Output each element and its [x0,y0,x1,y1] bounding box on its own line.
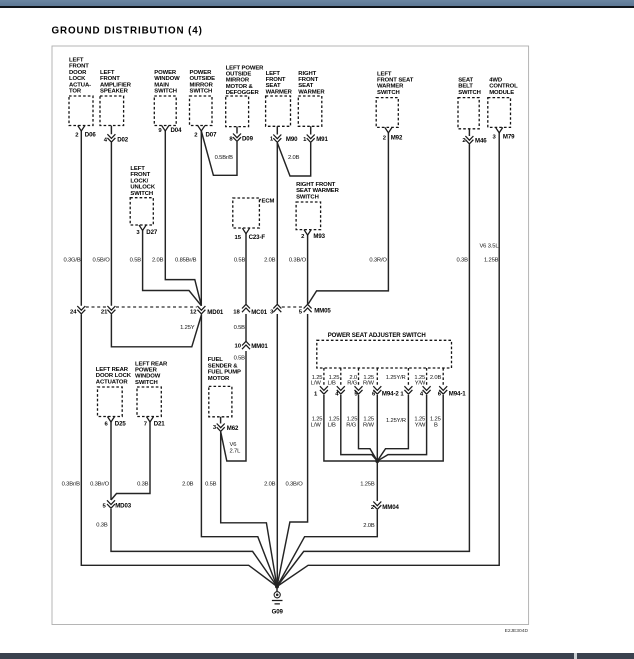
svg-text:D27: D27 [146,229,158,236]
svg-text:LEFT REARPOWERWINDOWSWITCH: LEFT REARPOWERWINDOWSWITCH [135,361,168,386]
svg-text:B: B [434,422,438,428]
svg-text:L/W: L/W [311,422,322,428]
svg-text:0.3B/O: 0.3B/O [285,482,303,488]
component D02 left front amplifier speaker [100,70,132,144]
svg-text:SEATBELTSWITCH: SEATBELTSWITCH [458,78,481,96]
svg-text:7: 7 [144,422,148,428]
svg-text:0.3R/O: 0.3R/O [369,258,387,264]
svg-text:1: 1 [314,391,318,397]
svg-text:21: 21 [101,309,108,315]
wire MC01 to MM01 pin10 (0.5B) [245,314,247,341]
wire MM04 pin2 to ground fan (2.0B) [277,510,377,587]
wire M94-1 pin1 to splice (1.25Y/R) [377,395,408,461]
svg-text:0.3B: 0.3B [456,258,468,264]
wire M92 pin2 to MM05 pin5 (0.3R/O) [308,133,388,304]
svg-text:0.3B/O: 0.3B/O [289,258,307,264]
svg-text:0.5Br/B: 0.5Br/B [215,155,234,161]
internal dashed leads of power seat adjuster switch [324,368,443,386]
svg-text:1.25Y/R: 1.25Y/R [386,418,406,424]
svg-text:4WDCONTROLMODULE: 4WDCONTROLMODULE [489,78,518,96]
svg-text:M93: M93 [313,233,325,240]
connector MC01 pin 18 [233,304,268,316]
wire D27 pin3 to MD01 (0.5B) [143,231,202,306]
component ECM connector C23-F [233,198,275,241]
svg-text:LEFTFRONTSEATWARMER: LEFTFRONTSEATWARMER [266,71,293,96]
svg-text:0.5B: 0.5B [205,482,217,488]
svg-text:Y/W: Y/W [415,422,426,428]
component D09 left power outside mirror motor and defogger [226,65,264,142]
connector MM05 pin 3 [270,304,281,315]
svg-text:R/G: R/G [346,422,356,428]
svg-text:0.3B: 0.3B [96,523,108,529]
svg-text:R/W: R/W [363,381,374,387]
svg-text:2.0B: 2.0B [264,482,276,488]
svg-text:1.25B: 1.25B [360,481,375,487]
svg-text:MM05: MM05 [314,308,331,315]
svg-text:2.0B: 2.0B [363,523,375,529]
svg-text:MD01: MD01 [207,309,224,316]
wire M93 pin2 to MM05 pin5 (0.3B/O) [307,235,309,304]
svg-text:18: 18 [233,310,240,316]
component D07 power outside mirror switch [190,70,218,139]
svg-text:D09: D09 [242,136,254,143]
wire M46 pin2 to ground fan (0.3B) [277,129,469,587]
svg-text:GROUND DISTRIBUTION (4): GROUND DISTRIBUTION (4) [52,26,203,37]
svg-text:RIGHT FRONTSEAT WARMERSWITCH: RIGHT FRONTSEAT WARMERSWITCH [296,182,339,200]
wire M94-2 pin6 to splice (1.25 R/W) [376,395,378,461]
wire MD01 pin21 jumper to MD01 pin12 (1.25Y) [111,314,201,346]
diagram frame [52,46,529,625]
svg-text:10: 10 [234,344,241,350]
wire M62 pin3 stub [220,417,222,424]
svg-text:MM01: MM01 [251,343,268,350]
component M90 left front seat warmer [266,71,299,143]
svg-text:L/B: L/B [328,381,337,387]
svg-text:LEFT REARDOOR LOCKACTUATOR: LEFT REARDOOR LOCKACTUATOR [96,367,132,385]
component M62 fuel sender and fuel pump motor [208,357,241,432]
svg-text:D06: D06 [85,132,97,139]
wire M94-2 pin4 to splice (1.25 L/B) [341,395,378,461]
wire D04 pin9 to MD01 (2.0B) [165,131,201,306]
wire M62 pin3 to ground fan (0.5B) [221,432,277,587]
svg-text:5: 5 [354,391,358,397]
connector M94-1 pins 1,4,6 [400,386,466,397]
bottom dark bar [0,653,634,659]
wire MM01 pin10 to M62 splice (0.5B) [221,351,246,461]
svg-text:2: 2 [301,234,305,240]
svg-text:1.25B: 1.25B [484,258,499,264]
connector MD01 pin 21 [101,306,116,315]
svg-text:POWERWINDOWMAINSWITCH: POWERWINDOWMAINSWITCH [154,70,180,95]
svg-text:M62: M62 [227,425,239,432]
connector MD01 dashed gang line [86,306,197,308]
connector M94-2 pins 1,4,5,6 [314,386,399,397]
svg-text:2.0B: 2.0B [182,482,194,488]
svg-text:M92: M92 [391,134,403,141]
svg-text:LEFTFRONTLOCK/UNLOCKSWITCH: LEFTFRONTLOCK/UNLOCKSWITCH [130,166,155,197]
svg-text:2.0B: 2.0B [430,375,442,381]
svg-text:3: 3 [136,230,140,236]
wire M90 pin1 to M91 pin1 (2.0B) [277,126,310,176]
svg-text:M46: M46 [475,137,487,144]
connector MM01 pin 10 [234,341,268,350]
svg-text:M94-2: M94-2 [382,390,399,397]
connector MD03 pin 5 [103,500,132,509]
svg-text:5: 5 [103,504,107,510]
connector MM04 pin 2 [371,502,400,512]
svg-text:0.5B: 0.5B [130,258,142,264]
svg-text:V6 3.5L: V6 3.5L [479,244,499,250]
component D06 left front door lock actuator [69,58,96,139]
svg-text:0.5B/O: 0.5B/O [92,258,110,264]
svg-text:C23-F: C23-F [249,234,266,241]
wire MD03 pin5 to ground fan (0.3B) [111,509,277,587]
component M92 left front seat warmer switch [376,71,413,141]
svg-text:M79: M79 [503,134,515,141]
svg-text:G09: G09 [272,608,284,615]
svg-text:R/W: R/W [363,422,374,428]
svg-text:LEFTFRONTDOORLOCKACTUA-TOR: LEFTFRONTDOORLOCKACTUA-TOR [69,58,91,95]
ground G09 [272,585,284,616]
wire M90 pin1 to MM05 pin3 (2.0B) [276,126,278,304]
component M91 right front seat warmer [298,71,328,143]
connector MD01 pin 12 [190,306,224,316]
top blue banner [0,0,634,6]
component D27 left front lock/unlock switch [130,166,158,236]
connector MM05 dashed gang line [282,306,303,308]
svg-text:24: 24 [70,309,77,315]
svg-text:L/W: L/W [311,381,322,387]
svg-text:V62.7L: V62.7L [230,442,242,454]
svg-text:L/B: L/B [328,422,337,428]
wire D06 pin2 to MD01 pin24 (0.3G/B) [80,131,82,306]
svg-text:15: 15 [234,235,241,241]
wire MD01 pin24 to ground fan (0.3Br/B) [81,314,277,586]
wire MD01 pin12 to ground fan (2.0B) [201,314,277,586]
svg-text:6: 6 [105,422,109,428]
svg-text:2.0B: 2.0B [264,258,276,264]
component D25 left rear door lock actuator [96,367,132,428]
svg-text:D02: D02 [117,137,129,144]
svg-text:0.5B: 0.5B [234,258,246,264]
connector MM05 pin 5 [299,304,332,315]
svg-text:1: 1 [270,137,274,143]
component D04 power window main switch [154,70,182,134]
wire MM05 pin5 to ground fan (0.3B/O) [277,314,308,587]
svg-text:3: 3 [213,425,217,431]
svg-text:3: 3 [270,310,274,316]
wire D07 pin2 to D09 pin8 (0.5Br/B) [201,127,237,176]
svg-text:2.0B: 2.0B [288,155,300,161]
svg-text:M91: M91 [316,136,328,143]
svg-text:R/G: R/G [347,381,357,387]
component M46 seat belt switch [458,78,487,145]
component D21 left rear power window switch [135,361,168,427]
svg-text:0.5B: 0.5B [234,325,246,331]
svg-text:MC01: MC01 [251,309,268,316]
svg-text:POWER SEAT ADJUSTER SWITCH: POWER SEAT ADJUSTER SWITCH [328,332,426,339]
svg-text:2: 2 [383,135,387,141]
component M79 4wd control module [488,78,518,141]
svg-text:D07: D07 [206,132,218,139]
svg-text:2: 2 [75,133,79,139]
wire M94-2 pin1 and M94-1 pin6 to splice (1.25 L/W, 1.25 B) [324,395,443,461]
svg-text:Y/W: Y/W [415,381,426,387]
wire M94-1 pin4 to splice (1.25 Y/W) [377,395,426,461]
wire D07 pin2 to MD01 pin12 (0.85Br/B) [200,131,202,306]
svg-text:1: 1 [400,391,404,397]
svg-text:1.25Y: 1.25Y [180,325,195,331]
svg-text:MM04: MM04 [382,504,399,511]
wire M79 pin3 to ground fan (1.25B) [277,133,499,587]
svg-text:D04: D04 [171,127,183,134]
svg-text:RIGHTFRONTSEATWARMER: RIGHTFRONTSEATWARMER [298,71,325,96]
svg-text:2: 2 [194,133,198,139]
svg-text:0.5B: 0.5B [234,356,246,362]
component power seat adjuster switch (M94) [317,332,452,368]
svg-text:2.0B: 2.0B [152,258,164,264]
svg-text:2: 2 [462,138,466,144]
svg-text:12: 12 [190,310,197,316]
svg-text:ECM: ECM [262,198,275,204]
svg-text:LEFT POWEROUTSIDEMIRRORMOTOR &: LEFT POWEROUTSIDEMIRRORMOTOR &DEFOGGER [226,65,264,96]
svg-text:POWEROUTSIDEMIRRORSWITCH: POWEROUTSIDEMIRRORSWITCH [190,70,216,95]
svg-text:5: 5 [299,310,303,316]
svg-text:0.85Br/B: 0.85Br/B [175,258,197,264]
svg-text:1.25Y/R: 1.25Y/R [386,375,406,381]
svg-text:3: 3 [493,135,497,141]
svg-text:0.3G/B: 0.3G/B [63,258,80,264]
svg-text:M90: M90 [286,136,298,143]
svg-text:0.3Br/B: 0.3Br/B [62,482,81,488]
svg-text:0.3Br/O: 0.3Br/O [90,482,110,488]
wire D02 pin4 to MD01 pin21 (0.5B/O) [110,126,112,306]
svg-text:MD03: MD03 [115,503,132,510]
svg-text:D25: D25 [115,421,127,428]
wire ECM C23-F to MC01 pin18 (0.5B) [245,234,247,304]
svg-text:D21: D21 [154,421,166,428]
svg-text:0.3B: 0.3B [137,482,149,488]
connector MD01 pin 24 [70,306,85,315]
svg-text:M94-1: M94-1 [449,390,466,397]
wire M94-2 pin5 to splice (1.25 R/G) [359,395,378,461]
svg-text:4: 4 [420,391,424,397]
svg-text:LEFTFRONT SEATWARMERSWITCH: LEFTFRONT SEATWARMERSWITCH [377,71,414,96]
svg-text:1: 1 [303,137,307,143]
component M93 right front seat warmer switch [296,182,339,240]
wire D21 pin7 to MD03 pin5 (0.3B) [111,422,150,500]
svg-text:E2JE304D: E2JE304D [505,628,529,634]
svg-text:LEFTFRONTAMPLIFIERSPEAKER: LEFTFRONTAMPLIFIERSPEAKER [100,70,132,95]
svg-text:9: 9 [158,128,162,134]
wire splice to MM04 pin2 (1.25B) [376,461,378,501]
wire D25 pin6 to MD03 pin5 (0.3Br/O) [110,422,112,500]
wire MM05 pin3 to ground G09 [276,314,278,587]
splice node of power seat adjuster wires [375,459,379,463]
